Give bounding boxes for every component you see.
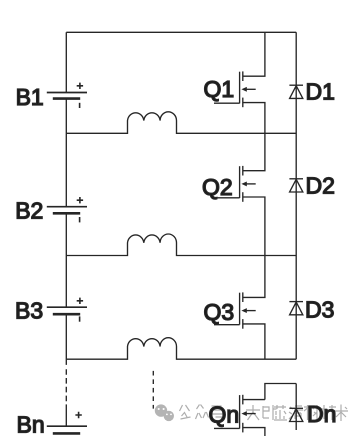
right diode rail <box>295 32 297 359</box>
svg-text:Q1: Q1 <box>204 76 235 102</box>
dashed continuation under L3 <box>152 371 154 409</box>
row node 3 wire with inductor L3 <box>66 338 296 360</box>
svg-text:Q2: Q2 <box>202 174 233 200</box>
watermark char hao <box>211 406 224 420</box>
row node 1 wire with inductor L1 <box>66 112 296 134</box>
watermark wechat icon <box>155 404 174 421</box>
battery B2 <box>47 197 87 222</box>
left rail <box>65 32 67 365</box>
svg-text:B3: B3 <box>15 297 43 323</box>
svg-text:Qn: Qn <box>209 402 240 428</box>
watermark char shu <box>334 405 348 422</box>
row node 2 wire with inductor L2 <box>66 234 296 256</box>
svg-text:B1: B1 <box>16 84 44 110</box>
svg-text:Dn: Dn <box>307 401 336 427</box>
transistor Qn <box>214 395 265 436</box>
top rail <box>66 31 296 33</box>
diode D1 <box>289 85 303 98</box>
svg-text:D3: D3 <box>305 297 334 323</box>
battery B3 <box>47 298 87 322</box>
transistor Q3 <box>214 256 265 360</box>
svg-text:D1: D1 <box>306 79 335 105</box>
watermark char gong <box>180 405 191 419</box>
watermark char lan <box>274 405 287 420</box>
watermark char hai (behind diode) <box>289 406 303 419</box>
diode D3 <box>289 302 303 315</box>
transistor Q1 <box>214 32 265 133</box>
svg-text:D2: D2 <box>306 173 335 199</box>
watermark char ji (behind Dn) <box>321 405 336 420</box>
left rail dashed continuation <box>65 369 67 401</box>
transistor Q2 <box>214 133 265 255</box>
watermark char zhong <box>196 405 209 420</box>
watermark char ke <box>304 405 317 420</box>
diode Dn <box>289 408 303 421</box>
diode D2 <box>289 179 303 192</box>
diode rail Dn <box>295 384 297 431</box>
left rail to Bn <box>65 404 67 426</box>
watermark char da <box>246 405 260 420</box>
battery B1 <box>47 83 87 108</box>
svg-text:B2: B2 <box>15 197 43 223</box>
svg-text:Q3: Q3 <box>204 299 235 325</box>
node stub row n-1 <box>265 384 296 400</box>
watermark char yin <box>263 405 277 420</box>
battery Bn <box>47 412 87 434</box>
svg-text:Bn: Bn <box>17 412 45 436</box>
